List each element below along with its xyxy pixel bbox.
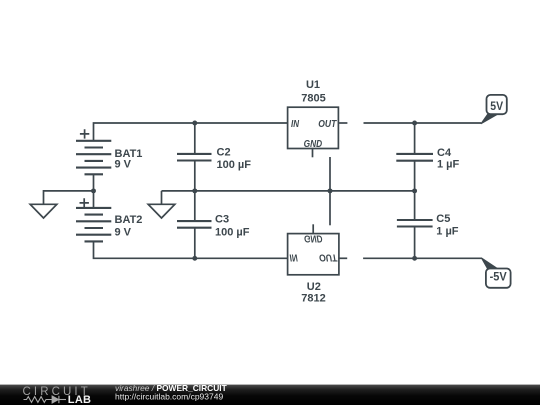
svg-text:GND: GND [304, 233, 323, 244]
svg-text:U2: U2 [307, 281, 321, 293]
wire BAT1- to mid junction [93, 174, 95, 191]
capacitor C5 [397, 191, 433, 258]
svg-text:-5V: -5V [490, 272, 507, 284]
node junction GND wire on rail [328, 188, 333, 193]
node junction C3 bottom [192, 256, 197, 261]
node junction C5 bottom [412, 256, 417, 261]
net flag -5V box [486, 269, 511, 288]
svg-text:http://circuitlab.com/cp93749: http://circuitlab.com/cp93749 [115, 392, 223, 402]
svg-text:C5: C5 [436, 213, 450, 225]
wire GND net vertical [329, 157, 331, 225]
capacitor C3 [177, 191, 212, 258]
svg-text:9 V: 9 V [115, 159, 132, 171]
U2 OUT pin stub [339, 257, 347, 259]
CircuitLab logo resistor and diode symbol [24, 396, 67, 403]
svg-text:100 µF: 100 µF [215, 226, 250, 238]
net flag 5V box [487, 95, 507, 114]
svg-text:OUT: OUT [318, 119, 337, 130]
wire BAT2- to bottom rail to U2 IN [94, 241, 288, 258]
svg-text:1 µF: 1 µF [437, 158, 460, 170]
svg-text:1 µF: 1 µF [436, 226, 459, 238]
capacitor C4 [396, 123, 433, 191]
svg-text:9 V: 9 V [115, 226, 132, 238]
svg-text:C3: C3 [215, 214, 229, 226]
U2 GND pin stub [312, 224, 314, 233]
wire junction to BAT2+ [93, 191, 95, 208]
svg-text:U1: U1 [306, 79, 320, 91]
battery BAT2 [76, 208, 111, 242]
wire top rail BAT1+ to U1 IN [94, 123, 288, 141]
node junction C4/C5 on rail [412, 188, 417, 193]
battery BAT1 [76, 141, 111, 175]
svg-text:100 µF: 100 µF [217, 159, 252, 171]
node junction C4 top [412, 121, 417, 126]
battery BAT1 plus sign [80, 129, 89, 138]
wire rail corner to ground 2 [161, 191, 163, 204]
svg-text:IN: IN [290, 252, 299, 263]
wire mid junction to ground 1 [44, 191, 94, 204]
regulator U1 body [288, 107, 339, 148]
svg-text:7812: 7812 [301, 293, 325, 305]
svg-text:5V: 5V [490, 101, 503, 113]
node junction between batteries [91, 188, 96, 193]
svg-text:BAT2: BAT2 [115, 214, 143, 226]
svg-text:7805: 7805 [301, 93, 325, 105]
svg-text:C4: C4 [437, 147, 452, 159]
ground symbol 2 [148, 204, 175, 218]
svg-text:OUT: OUT [319, 252, 338, 263]
node junction C2/C3 on rail [192, 188, 197, 193]
wire U2 OUT to -5V flag [363, 257, 482, 259]
svg-text:IN: IN [291, 119, 300, 130]
U1 OUT pin stub [338, 122, 347, 124]
node junction C2 top [192, 121, 197, 126]
footer bar [0, 385, 540, 405]
regulator U2 body (flipped) [288, 234, 339, 275]
wire U1 OUT to 5V flag [364, 122, 482, 124]
svg-text:C2: C2 [217, 146, 231, 158]
net flag -5V tail [481, 258, 497, 269]
battery BAT2 plus sign [80, 198, 89, 207]
U1 GND pin stub [312, 149, 314, 158]
net flag 5V tail [481, 114, 498, 124]
svg-text:LAB: LAB [68, 394, 92, 405]
capacitor C2 [177, 123, 212, 191]
wire middle ground rail [162, 190, 415, 192]
svg-text:GND: GND [304, 139, 323, 150]
ground symbol 1 [30, 204, 57, 218]
